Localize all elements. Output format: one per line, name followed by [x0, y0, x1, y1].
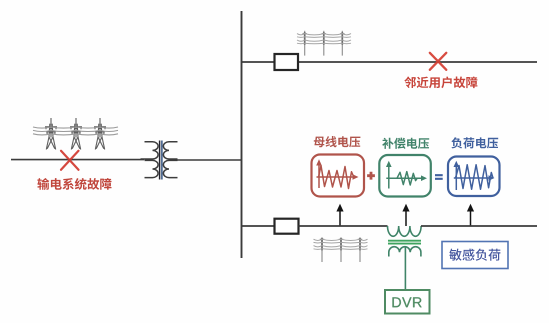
series transformer T2 secondary winding [389, 247, 421, 257]
transmission towers (bottom feeder) [314, 238, 368, 262]
wire W5 (breaker to series transformer) [299, 225, 388, 227]
wire W7 (secondary to DVR) [404, 248, 406, 291]
wire W3 (top feeder) [242, 61, 538, 63]
label 补偿电压 [382, 138, 429, 149]
sensitive load box 敏感负荷 [442, 242, 508, 269]
arrow (to load voltage box) [467, 204, 474, 226]
arrow (to bus voltage box) [336, 204, 343, 226]
wire W1 (source line, left) [11, 159, 144, 161]
label 负荷电压 [451, 137, 498, 148]
arrow (to compensation voltage box) [402, 204, 409, 226]
equals sign [435, 175, 443, 179]
wire W2 (transformer to bus) [170, 159, 242, 161]
fault X (nearby user fault) [430, 53, 447, 70]
wire W4 (bottom feeder, bus to breaker) [242, 225, 275, 227]
transformer T1 [141, 141, 178, 180]
label 输电系统故障 [37, 178, 111, 190]
label 母线电压 [314, 136, 361, 147]
wire W6 (series transformer to load) [421, 225, 537, 227]
breaker CB2 (bottom feeder) [275, 219, 299, 234]
DVR box [385, 290, 430, 314]
series transformer T2 core [388, 241, 421, 244]
waveform box (bus voltage) [312, 155, 365, 197]
waveform box (load voltage) [448, 157, 500, 197]
fault X (transmission system fault) [61, 151, 79, 170]
label 邻近用户故障 [404, 77, 477, 89]
breaker CB1 (top feeder) [275, 54, 299, 70]
series transformer T2 primary winding [388, 226, 422, 236]
plus sign [367, 172, 375, 180]
transmission towers (source system) [33, 118, 118, 150]
waveform box (compensation voltage) [379, 155, 431, 197]
transmission towers (top feeder) [297, 31, 351, 56]
bus (vertical) [241, 11, 243, 258]
